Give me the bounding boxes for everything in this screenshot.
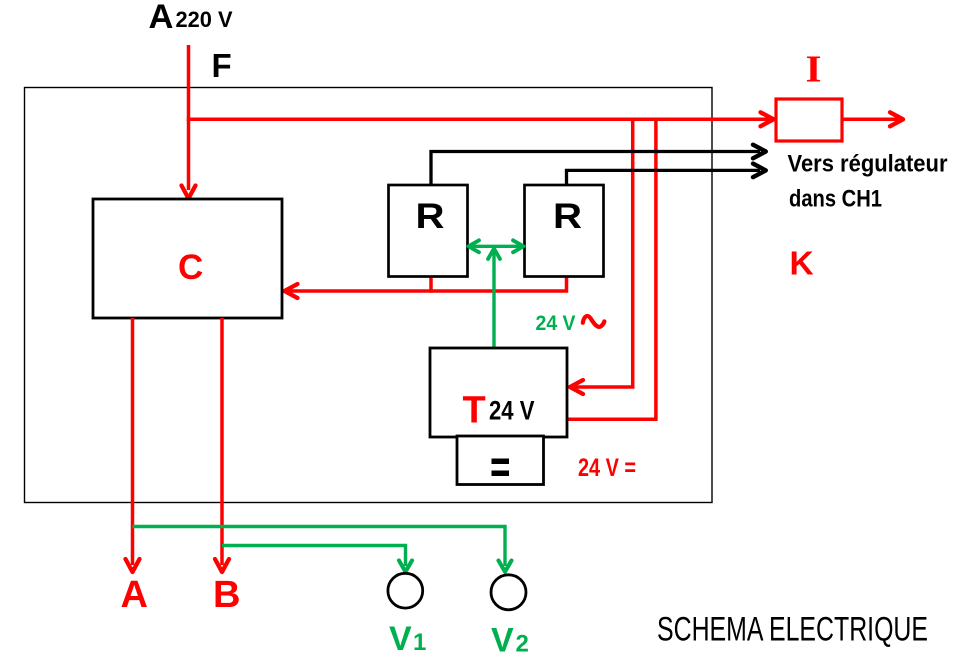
label T 24 V xyxy=(463,390,535,432)
rectifier box = xyxy=(457,436,544,485)
resistor R1 xyxy=(389,185,468,277)
wire: red 220V bus to breaker I xyxy=(187,112,774,126)
svg-text:R: R xyxy=(416,197,445,236)
svg-text:Vers régulateur: Vers régulateur xyxy=(788,151,948,178)
svg-text:220 V: 220 V xyxy=(176,7,233,32)
transformer T xyxy=(430,348,567,437)
lamp V1 xyxy=(388,573,423,608)
lamp V2 xyxy=(491,575,526,610)
label: Vers régulateur dans CH1 xyxy=(788,151,948,213)
enclosure box xyxy=(25,88,713,503)
resistor R2 xyxy=(525,185,604,277)
wire: green from B to lamp V1 xyxy=(222,546,412,572)
wire: output A xyxy=(126,318,140,572)
wire: transformer T output riser to bus xyxy=(567,119,656,419)
svg-text:A: A xyxy=(149,0,174,36)
svg-text:V: V xyxy=(389,620,412,658)
svg-text:SCHEMA ELECTRIQUE: SCHEMA ELECTRIQUE xyxy=(657,611,928,649)
wire: breaker I output xyxy=(842,112,903,126)
svg-text:1: 1 xyxy=(413,629,426,656)
svg-text:V: V xyxy=(491,622,514,660)
svg-text:2: 2 xyxy=(516,631,529,658)
svg-text:K: K xyxy=(790,246,814,283)
wire: 220V feed into C xyxy=(182,45,196,199)
wire: R1 bottom drop xyxy=(429,277,433,293)
breaker I xyxy=(776,99,842,141)
svg-text:dans CH1: dans CH1 xyxy=(789,186,882,213)
wire: R2 top to CH1 regulator xyxy=(567,164,766,185)
wire: R2 bottom to contactor C (24V feed) xyxy=(285,277,567,299)
svg-text:24 V: 24 V xyxy=(536,311,577,335)
svg-text:24 V =: 24 V = xyxy=(578,454,636,482)
label V1 xyxy=(389,620,426,658)
svg-text:24 V: 24 V xyxy=(489,396,535,426)
label: 24 V ~ xyxy=(536,311,605,335)
svg-text:C: C xyxy=(178,248,203,287)
svg-text:T: T xyxy=(463,390,486,432)
svg-text:A: A xyxy=(121,574,148,616)
node A 220 V label xyxy=(149,0,233,36)
wire: R1 top to CH1 regulator xyxy=(431,145,766,185)
wire: 24V AC from transformer T up to R link xyxy=(488,249,500,348)
svg-text:B: B xyxy=(213,574,240,616)
svg-text:R: R xyxy=(553,197,582,236)
wire: 220V drop to transformer T input xyxy=(570,119,633,394)
wire: green link between R1 and R2 (double arrow) xyxy=(469,240,524,252)
label V2 xyxy=(491,622,529,660)
svg-text:F: F xyxy=(212,47,232,84)
contactor C xyxy=(93,199,282,318)
svg-text:I: I xyxy=(806,49,822,91)
wire: green from A to lamp V2 xyxy=(133,527,512,572)
wire: output B xyxy=(215,318,229,572)
